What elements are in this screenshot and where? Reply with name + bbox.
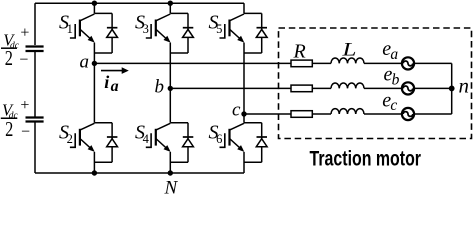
- wire phase a: [94, 62, 291, 64]
- traction motor dashed box: [279, 28, 472, 139]
- wire phase c: [244, 113, 291, 115]
- svg-text:L: L: [341, 38, 356, 59]
- inductor (phase b): [331, 83, 364, 88]
- svg-text:R: R: [293, 40, 306, 62]
- label Vdc/2 lower: [1, 97, 30, 142]
- junction dot leg1 / bottom rail (N): [92, 170, 97, 175]
- wire leg1 S2-emitter to bottom rail: [93, 152, 95, 173]
- wire leg2 S3-emitter to node b: [169, 43, 171, 89]
- wire left rail lower: [34, 123, 36, 174]
- inductor (phase c): [331, 109, 364, 114]
- svg-text:a: a: [80, 52, 90, 73]
- svg-text:2: 2: [5, 47, 13, 70]
- transistor S4 with diode: [146, 123, 194, 163]
- node n junction dot: [449, 86, 455, 92]
- junction dot leg2 / bottom rail (N): [168, 170, 173, 175]
- transistor S5 with diode: [220, 13, 268, 53]
- node a junction dot: [92, 61, 97, 66]
- wire bottom rail: [35, 172, 244, 174]
- resistor (phase b): [291, 85, 312, 92]
- wire: [312, 62, 331, 64]
- wire top rail: [35, 2, 244, 4]
- wire leg2 node b to S4: [169, 88, 171, 122]
- label Vdc/2 upper: [1, 25, 29, 71]
- svg-text:+: +: [20, 97, 29, 114]
- wire leg1 collector: [93, 3, 95, 13]
- svg-text:−: −: [21, 123, 30, 140]
- junction dot leg1 / top rail: [92, 1, 97, 6]
- wire: [414, 87, 452, 89]
- wire: [414, 113, 452, 115]
- wire leg3 S5-emitter to node c: [243, 43, 245, 114]
- wire left rail middle: [34, 52, 36, 117]
- wire leg2 collector: [169, 3, 171, 13]
- wire: [364, 113, 402, 115]
- phase c branch: [291, 108, 452, 120]
- wire leg3 collector: [243, 3, 245, 13]
- svg-text:Traction motor: Traction motor: [310, 148, 422, 171]
- junction dot leg2 / top rail: [168, 1, 173, 6]
- node c junction dot: [241, 111, 246, 116]
- wire: [364, 62, 402, 64]
- wire left rail upper: [34, 3, 36, 45]
- svg-text:−: −: [19, 51, 28, 68]
- transistor S2 with diode: [70, 123, 118, 163]
- svg-text:b: b: [155, 77, 165, 98]
- transistor S1 with diode: [70, 13, 118, 53]
- wire: [364, 87, 402, 89]
- node b junction dot: [168, 86, 173, 91]
- wire neutral bus: [451, 63, 453, 114]
- wire phase b: [170, 87, 291, 89]
- wire: [312, 87, 331, 89]
- svg-text:c: c: [232, 99, 241, 120]
- resistor R (phase a): [291, 60, 312, 67]
- resistor (phase c): [291, 111, 312, 118]
- current arrow i_a: [101, 67, 129, 74]
- transistor S3 with diode: [146, 13, 194, 53]
- wire leg1 node a to S2: [93, 63, 95, 122]
- inductor L (phase a): [331, 58, 364, 63]
- capacitor C2: [26, 118, 44, 122]
- svg-text:N: N: [164, 177, 179, 198]
- svg-text:n: n: [459, 73, 470, 97]
- wire: [312, 113, 331, 115]
- wire: [414, 62, 452, 64]
- svg-text:+: +: [20, 25, 29, 42]
- transistor S6 with diode: [220, 123, 268, 163]
- wire leg1 S1-emitter to node a: [93, 43, 95, 64]
- AC source e_a: [402, 57, 414, 69]
- phase b branch: [291, 82, 452, 94]
- svg-text:2: 2: [5, 118, 13, 141]
- wire leg3 node c to S6: [243, 114, 245, 123]
- wire leg2 S4-emitter to bottom rail: [169, 152, 171, 173]
- capacitor C1: [26, 47, 44, 52]
- AC source e_b: [402, 82, 414, 94]
- phase a branch: [291, 57, 452, 69]
- AC source e_c: [402, 108, 414, 120]
- wire leg3 S6-emitter to bottom rail: [243, 152, 245, 173]
